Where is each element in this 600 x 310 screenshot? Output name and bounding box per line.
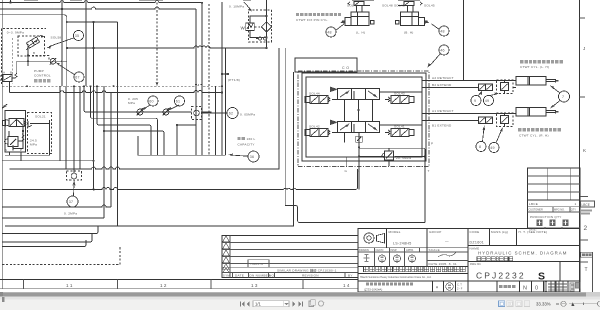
counterbalance valve bottom: [497, 113, 514, 127]
wire vertical x10: [10, 0, 12, 3]
cut-off text fragments top edge: [24, 0, 251, 1]
main valve 2: [330, 120, 380, 133]
scale signature: [438, 253, 456, 258]
svg-text:C. T: C. T: [457, 283, 462, 287]
pin cylinder assembly LH: [340, 0, 374, 26]
zoom slider track: [569, 303, 598, 305]
leader 9: [478, 92, 481, 96]
wire B1 EXTEND: [426, 120, 479, 122]
leader balloon 67: [58, 64, 75, 75]
dwg cell divider: [559, 262, 561, 282]
viewer scrollbar track: [0, 292, 600, 297]
svg-text:1 1: 1 1: [66, 283, 73, 288]
port G stub: [346, 158, 348, 168]
grid tick right margin 2: [580, 96, 586, 98]
sheet bottom border: [0, 279, 358, 281]
wire corner y207: [2, 205, 111, 207]
wire U bus y157: [138, 136, 226, 155]
svg-text:DRAWN: DRAWN: [359, 248, 369, 252]
label CTWT CYL RH jp: [518, 128, 561, 131]
solenoid valve SOL58: [26, 35, 43, 50]
wire A2 internal elbow: [380, 92, 423, 125]
wire top bus 2: [0, 7, 196, 9]
svg-text:LBCE: LBCE: [529, 202, 538, 206]
node on top bus 2: [61, 8, 63, 10]
nodes on pilot line: [26, 85, 28, 87]
pressure switch riser: [215, 86, 217, 155]
right margin column line: [592, 252, 594, 292]
svg-text:CHK'D: CHK'D: [376, 248, 384, 252]
svg-text:A2 RETRACT: A2 RETRACT: [432, 76, 454, 80]
title block col dividers: [387, 229, 517, 282]
svg-text:P: P: [358, 169, 360, 173]
balloon 48 RH: [439, 26, 449, 36]
leader 7 to rod RH: [552, 101, 560, 108]
wire y125 link: [177, 124, 196, 126]
svg-text:1/1: 1/1: [255, 301, 261, 306]
hanko stamp appr: [408, 255, 415, 262]
pump control return wire: [16, 60, 67, 62]
filter bypass dashes: [255, 26, 261, 28]
label CTWT CYL LH jp: [520, 60, 563, 63]
wire bus y162: [2, 160, 93, 162]
leader 49: [490, 94, 497, 96]
svg-text:62: 62: [229, 112, 234, 116]
balloon 46: [439, 45, 449, 55]
wire B2 EXTEND: [426, 87, 479, 89]
nav page dropdown: [253, 301, 289, 307]
svg-text:DATE: DATE: [235, 274, 244, 278]
svg-text:APPR.: APPR.: [406, 248, 414, 252]
wire vertical x86: [85, 0, 87, 86]
balloon 35: [74, 31, 84, 41]
svg-text:B: B: [10, 71, 12, 75]
svg-text:NO.: NO.: [269, 274, 275, 278]
svg-text:160 L: 160 L: [247, 137, 256, 141]
svg-text:G: G: [345, 169, 348, 173]
wire x74 vertical and gauge: [73, 86, 75, 173]
balloon 36: [248, 151, 259, 162]
leader 60: [143, 105, 150, 110]
leader balloon 37 arrow up: [73, 185, 76, 196]
node y162: [93, 160, 95, 162]
wire box y226: [5, 225, 294, 227]
wire x60 vertical: [59, 86, 61, 161]
bottom strip jp revision note: [366, 283, 413, 286]
svg-text:BY: BY: [348, 274, 353, 278]
svg-text:48: 48: [440, 30, 445, 34]
pilot dashed vertical x157 with arrow: [156, 3, 158, 81]
svg-text:LS-248H5: LS-248H5: [393, 242, 412, 246]
tool pages icon: [309, 300, 315, 307]
inline check valve bottom: [479, 117, 493, 124]
node relief drain: [12, 145, 14, 147]
grid column ticks bottom: [24, 280, 304, 289]
svg-text:SYM: SYM: [223, 274, 231, 278]
balloon 62: [227, 108, 238, 119]
bottom strip mini grid: [545, 282, 567, 293]
page layout icon 4: [524, 301, 529, 307]
svg-text:SOL44: SOL44: [309, 92, 320, 96]
SOL21 manifold solid box: [5, 111, 26, 153]
pilot valve SOL42: [305, 129, 337, 137]
filter branch wires: [250, 16, 267, 38]
node y125: [176, 124, 178, 126]
svg-text:SOL58: SOL58: [51, 36, 62, 40]
svg-text:SOL47: SOL47: [347, 4, 358, 8]
pump control dashed enclosure: [2, 28, 47, 84]
wire vertical x117: [117, 22, 119, 226]
svg-text:36: 36: [250, 155, 255, 159]
pressure switch x196: [192, 107, 202, 120]
wire y156 stub: [5, 120, 50, 155]
svg-text:(B. H): (B. H): [404, 31, 414, 35]
cylinder CTWT RH: [516, 108, 559, 117]
balloon 37: [67, 196, 78, 207]
bottom strip right stamps: [570, 283, 580, 292]
svg-text:(訂33-1042#A): (訂33-1042#A): [364, 288, 382, 292]
svg-text:CTWT CYL. (R. H): CTWT CYL. (R. H): [519, 134, 549, 138]
svg-text:—: —: [445, 240, 449, 244]
row bifuzu jp: [537, 220, 569, 227]
svg-text:PUMP: PUMP: [34, 69, 44, 73]
SOL21 output wire east: [30, 123, 49, 125]
svg-text:49: 49: [485, 99, 490, 103]
svg-text:MPa: MPa: [128, 101, 135, 105]
pump control left drop: [15, 61, 17, 74]
svg-text:SOL21: SOL21: [35, 115, 46, 119]
revision triangles column: [223, 236, 230, 273]
solenoid valve SOL21: [3, 119, 33, 128]
nested wire path 2: [91, 86, 158, 155]
svg-text:MPa: MPa: [30, 143, 37, 147]
wire A1 RETRACT: [426, 113, 516, 115]
balloon 7: [559, 91, 570, 102]
zoom slider mid tick: [583, 303, 584, 305]
balloon 49 bottom: [489, 143, 499, 153]
leader 49 bottom: [496, 129, 502, 143]
pump control drain wire: [27, 44, 29, 66]
leader 48 RH: [432, 24, 440, 30]
svg-text:33.33%: 33.33%: [536, 301, 551, 306]
nav last page icon: [299, 302, 303, 307]
bottom left corner wire 2: [2, 234, 92, 243]
svg-text:DZ1601: DZ1601: [470, 241, 485, 245]
balloon 48 LH: [326, 27, 336, 37]
wire bus y189 long: [2, 169, 357, 189]
svg-text:CTWT CYL. (L. H): CTWT CYL. (L. H): [520, 65, 549, 69]
balloon 61: [175, 96, 185, 106]
dashed box around switch: [67, 171, 82, 180]
pressure switch circle: [71, 173, 77, 179]
wire top bus 1: [0, 1, 202, 3]
sheet trim edge bottom: [0, 288, 358, 290]
svg-text:MODEL: MODEL: [389, 230, 401, 234]
cylinder CTWT LH: [516, 77, 559, 86]
svg-text:PRODUCTION QTY: PRODUCTION QTY: [530, 215, 562, 219]
sheet right border: [579, 0, 581, 292]
node return bus left: [66, 47, 68, 49]
svg-text:CONTROL: CONTROL: [34, 74, 51, 78]
svg-text:P: P: [20, 148, 22, 152]
check valve 1: [137, 109, 143, 115]
balloon 8: [476, 142, 486, 152]
drawn chkd insp appr header: [358, 248, 468, 267]
right margin tick near title: [580, 197, 588, 263]
leader arrow to filter: [244, 2, 251, 10]
check valve line y112: [84, 86, 212, 112]
wire branch y22: [67, 21, 118, 23]
node filter bottom branch: [265, 36, 267, 38]
svg-text:HYDRAULIC SCHEM. DIAGRAM: HYDRAULIC SCHEM. DIAGRAM: [478, 251, 567, 256]
wire corner y218: [2, 217, 104, 219]
svg-text:0. 2MPa: 0. 2MPa: [64, 212, 77, 216]
short vertical x177: [176, 125, 178, 155]
leader balloon 35: [49, 38, 74, 47]
SOL21 manifold dashed box: [28, 113, 52, 154]
node filter drain joins return: [265, 47, 267, 49]
leader 36: [233, 155, 248, 156]
svg-text:TW0570: TW0570: [250, 262, 263, 266]
node on pump feed: [93, 21, 95, 23]
svg-text:SOL45: SOL45: [424, 4, 435, 8]
balloon 9: [471, 96, 481, 106]
wire vertical x111: [110, 92, 112, 207]
svg-text:T: T: [585, 267, 588, 273]
zoom out circle icon: [561, 301, 566, 306]
grid tick right margin: [580, 17, 586, 19]
wire vertical x292: [293, 72, 295, 226]
svg-text:P: P: [431, 142, 433, 146]
balloon 60: [148, 96, 158, 106]
wire vertical x228: [225, 48, 227, 155]
leader 48 LH: [336, 24, 345, 31]
svg-text:61: 61: [176, 100, 181, 104]
svg-text:60: 60: [149, 100, 154, 104]
bottom left corner wire 3: [2, 240, 86, 247]
node SOL21 out: [22, 130, 24, 132]
svg-text:DN NUMBER: DN NUMBER: [250, 274, 272, 278]
wire vertical x202: [201, 3, 203, 156]
right margin label box: [581, 252, 593, 257]
node branch y22: [66, 21, 68, 23]
arrowhead pilot x157: [155, 82, 158, 87]
row DATE: [528, 226, 581, 228]
nested wire path 4: [104, 131, 164, 155]
page layout icon 3: [516, 301, 522, 307]
svg-text:S: S: [538, 271, 545, 283]
svg-text:35: 35: [75, 34, 80, 38]
filter bypass diamond: [261, 22, 271, 32]
zoom minus dash: [556, 303, 559, 304]
svg-text:SOL42: SOL42: [309, 125, 320, 129]
hanko stamp drawn mark: [364, 254, 370, 262]
main valve 1: [330, 87, 380, 100]
manifold inner box: [306, 77, 422, 157]
nested wire path 3: [97, 86, 151, 155]
wire return bus y48: [67, 46, 266, 48]
wire relief drain: [358, 133, 360, 189]
svg-text:1 4: 1 4: [343, 283, 350, 288]
svg-text:QTY: QTY: [571, 209, 576, 212]
svg-text:2: 2: [584, 225, 588, 232]
kanji left marker: [371, 21, 375, 25]
svg-text:J: J: [583, 46, 585, 51]
counterbalance valve top: [497, 80, 514, 94]
wire vertical x196: [195, 9, 197, 155]
zoom in icon partial: [597, 301, 600, 306]
scrollbar lower track: [0, 297, 600, 300]
svg-text:1: 1: [575, 202, 577, 206]
kanji right marker: [396, 21, 400, 25]
leader to balloon 62: [202, 112, 228, 114]
svg-text:INSP.: INSP.: [391, 248, 398, 252]
viewer scrollbar thumb: [1, 292, 586, 296]
row LBCE: [528, 206, 581, 208]
svg-text:DATE 2005. 8. 31: DATE 2005. 8. 31: [429, 262, 457, 266]
right margin tiny text: [581, 210, 592, 215]
svg-text:0. 05MPa: 0. 05MPa: [240, 113, 255, 117]
svg-text:SCALE: SCALE: [429, 248, 440, 252]
PT1/8 stub: [222, 73, 227, 75]
svg-text:8: 8: [479, 145, 481, 149]
relief valve 24.5MPa: [5, 131, 25, 151]
status left tiny icon: [2, 297, 5, 302]
bottom strip metal class jp: [499, 285, 516, 288]
bottom left corner wire 1: [2, 227, 98, 234]
svg-text:(PT1/8): (PT1/8): [228, 78, 240, 82]
wire vertical x287: [284, 48, 286, 206]
orifice circle: [50, 59, 56, 65]
nav prev icon: [247, 302, 250, 307]
filter dashed enclosure: [249, 10, 272, 42]
svg-text:9: 9: [474, 99, 476, 103]
wire T drain: [359, 148, 425, 222]
value katakana name: [477, 257, 481, 261]
nav next icon: [293, 302, 296, 307]
svg-text:CTWT FIX PIN CYL.: CTWT FIX PIN CYL.: [296, 18, 329, 22]
pilot dashed vertical x209: [208, 4, 210, 155]
svg-text:B2 EXTEND: B2 EXTEND: [432, 83, 452, 87]
CO chain enclosure: [298, 71, 429, 167]
svg-text:MFG NO.: MFG NO.: [554, 209, 565, 212]
balloon 67: [74, 72, 84, 82]
pilot sense line: [28, 56, 49, 60]
leader 7 to rod LH: [552, 87, 560, 93]
leader 8: [483, 128, 485, 142]
balloon 49: [484, 96, 494, 106]
svg-text:GROUP: GROUP: [429, 230, 442, 234]
bottom strip hanko: [446, 283, 454, 291]
title block frame: [358, 229, 580, 293]
CO cover box: [295, 58, 357, 72]
viewer scrollbar left cap: [0, 292, 3, 297]
svg-text:48: 48: [327, 31, 332, 35]
svg-text:0. 10MPa: 0. 10MPa: [229, 5, 244, 9]
svg-text:46: 46: [440, 49, 445, 53]
pilot line dashed y87: [2, 84, 222, 86]
svg-text:0~3. 9MPa: 0~3. 9MPa: [7, 31, 24, 35]
wire x66 vertical: [65, 86, 67, 169]
nav first page icon: [241, 302, 245, 307]
svg-text:49: 49: [490, 146, 495, 150]
svg-text:7: 7: [562, 95, 564, 99]
svg-text:¥: ¥: [436, 286, 438, 290]
svg-text:B1 EXTEND: B1 EXTEND: [432, 124, 452, 128]
status bar background: [0, 299, 600, 310]
status bar top edge: [0, 296, 600, 298]
wire y205 manifold drain: [285, 206, 425, 223]
production qty table lower: [528, 200, 581, 229]
proportional relief valve left margin: [0, 71, 17, 93]
svg-text:N: N: [523, 286, 527, 292]
svg-text:CPJ2232: CPJ2232: [476, 271, 526, 281]
node top bus 1 right end: [201, 2, 203, 4]
node bus y92: [221, 91, 223, 93]
label CTWT FIX PIN CYL jp: [296, 13, 341, 16]
filter main riser: [266, 0, 268, 48]
svg-text:2 - F: 2 - F: [457, 287, 463, 291]
wire vertical x222 PT port: [221, 2, 223, 155]
svg-text:DWG NO.: DWG NO.: [470, 263, 482, 266]
production qty table narrow top: [528, 168, 581, 200]
svg-text:A1 RETRACT: A1 RETRACT: [432, 109, 454, 113]
wire from top right down to A2: [463, 0, 465, 81]
revision table frame: [222, 236, 358, 278]
wire bus y92: [10, 91, 223, 93]
revision header row dividers: [233, 273, 346, 278]
hanko stamp insp: [393, 255, 400, 262]
svg-text:(L. H): (L. H): [356, 31, 365, 35]
relief valve 20.5MPa: [382, 148, 393, 163]
page layout icon 1 active: [499, 301, 505, 307]
svg-text:CODE: CODE: [470, 230, 480, 234]
logo stamp circle: [364, 233, 374, 243]
svg-text:1 2: 1 2: [160, 283, 167, 288]
wire x80 vertical: [79, 86, 81, 169]
wires inside SOL21 block: [10, 127, 24, 161]
tool refresh icon: [318, 301, 324, 306]
node gallery: [357, 109, 359, 111]
svg-text:37: 37: [69, 200, 74, 204]
filter W element: [241, 23, 255, 31]
inline check valve top: [479, 84, 493, 91]
title block row dividers: [358, 246, 580, 282]
reservoir label jp: [238, 137, 245, 140]
node nested path4: [103, 130, 105, 132]
pin cylinder assembly RH: [398, 0, 430, 26]
wire A2 RETRACT: [426, 80, 516, 82]
zoom slider handle: [571, 302, 574, 306]
row CUSTOMER MFG QTY: [528, 211, 581, 213]
wire vertical x93: [93, 22, 95, 189]
revision cell TW0570: [248, 260, 269, 267]
label pump control katakana: [34, 79, 51, 82]
node on top bus 1: [9, 1, 11, 3]
right margin LBCE box: [581, 201, 595, 207]
hanko stamp chkd: [378, 255, 385, 262]
svg-text:SIMILAR DRAWING 刻印 CPJ1030/-1: SIMILAR DRAWING 刻印 CPJ1030/-1: [277, 268, 337, 273]
sheet left border: [1, 0, 3, 289]
svg-text:0: 0: [535, 286, 538, 292]
company name japanese: [364, 267, 369, 272]
pilot valve SOL43: [385, 96, 414, 104]
manifold right edge stubs: [422, 81, 426, 121]
check valve 2: [163, 109, 169, 115]
page layout icon 2: [507, 301, 513, 307]
svg-text:67: 67: [75, 76, 80, 80]
svg-text:LBCE: LBCE: [582, 203, 590, 207]
